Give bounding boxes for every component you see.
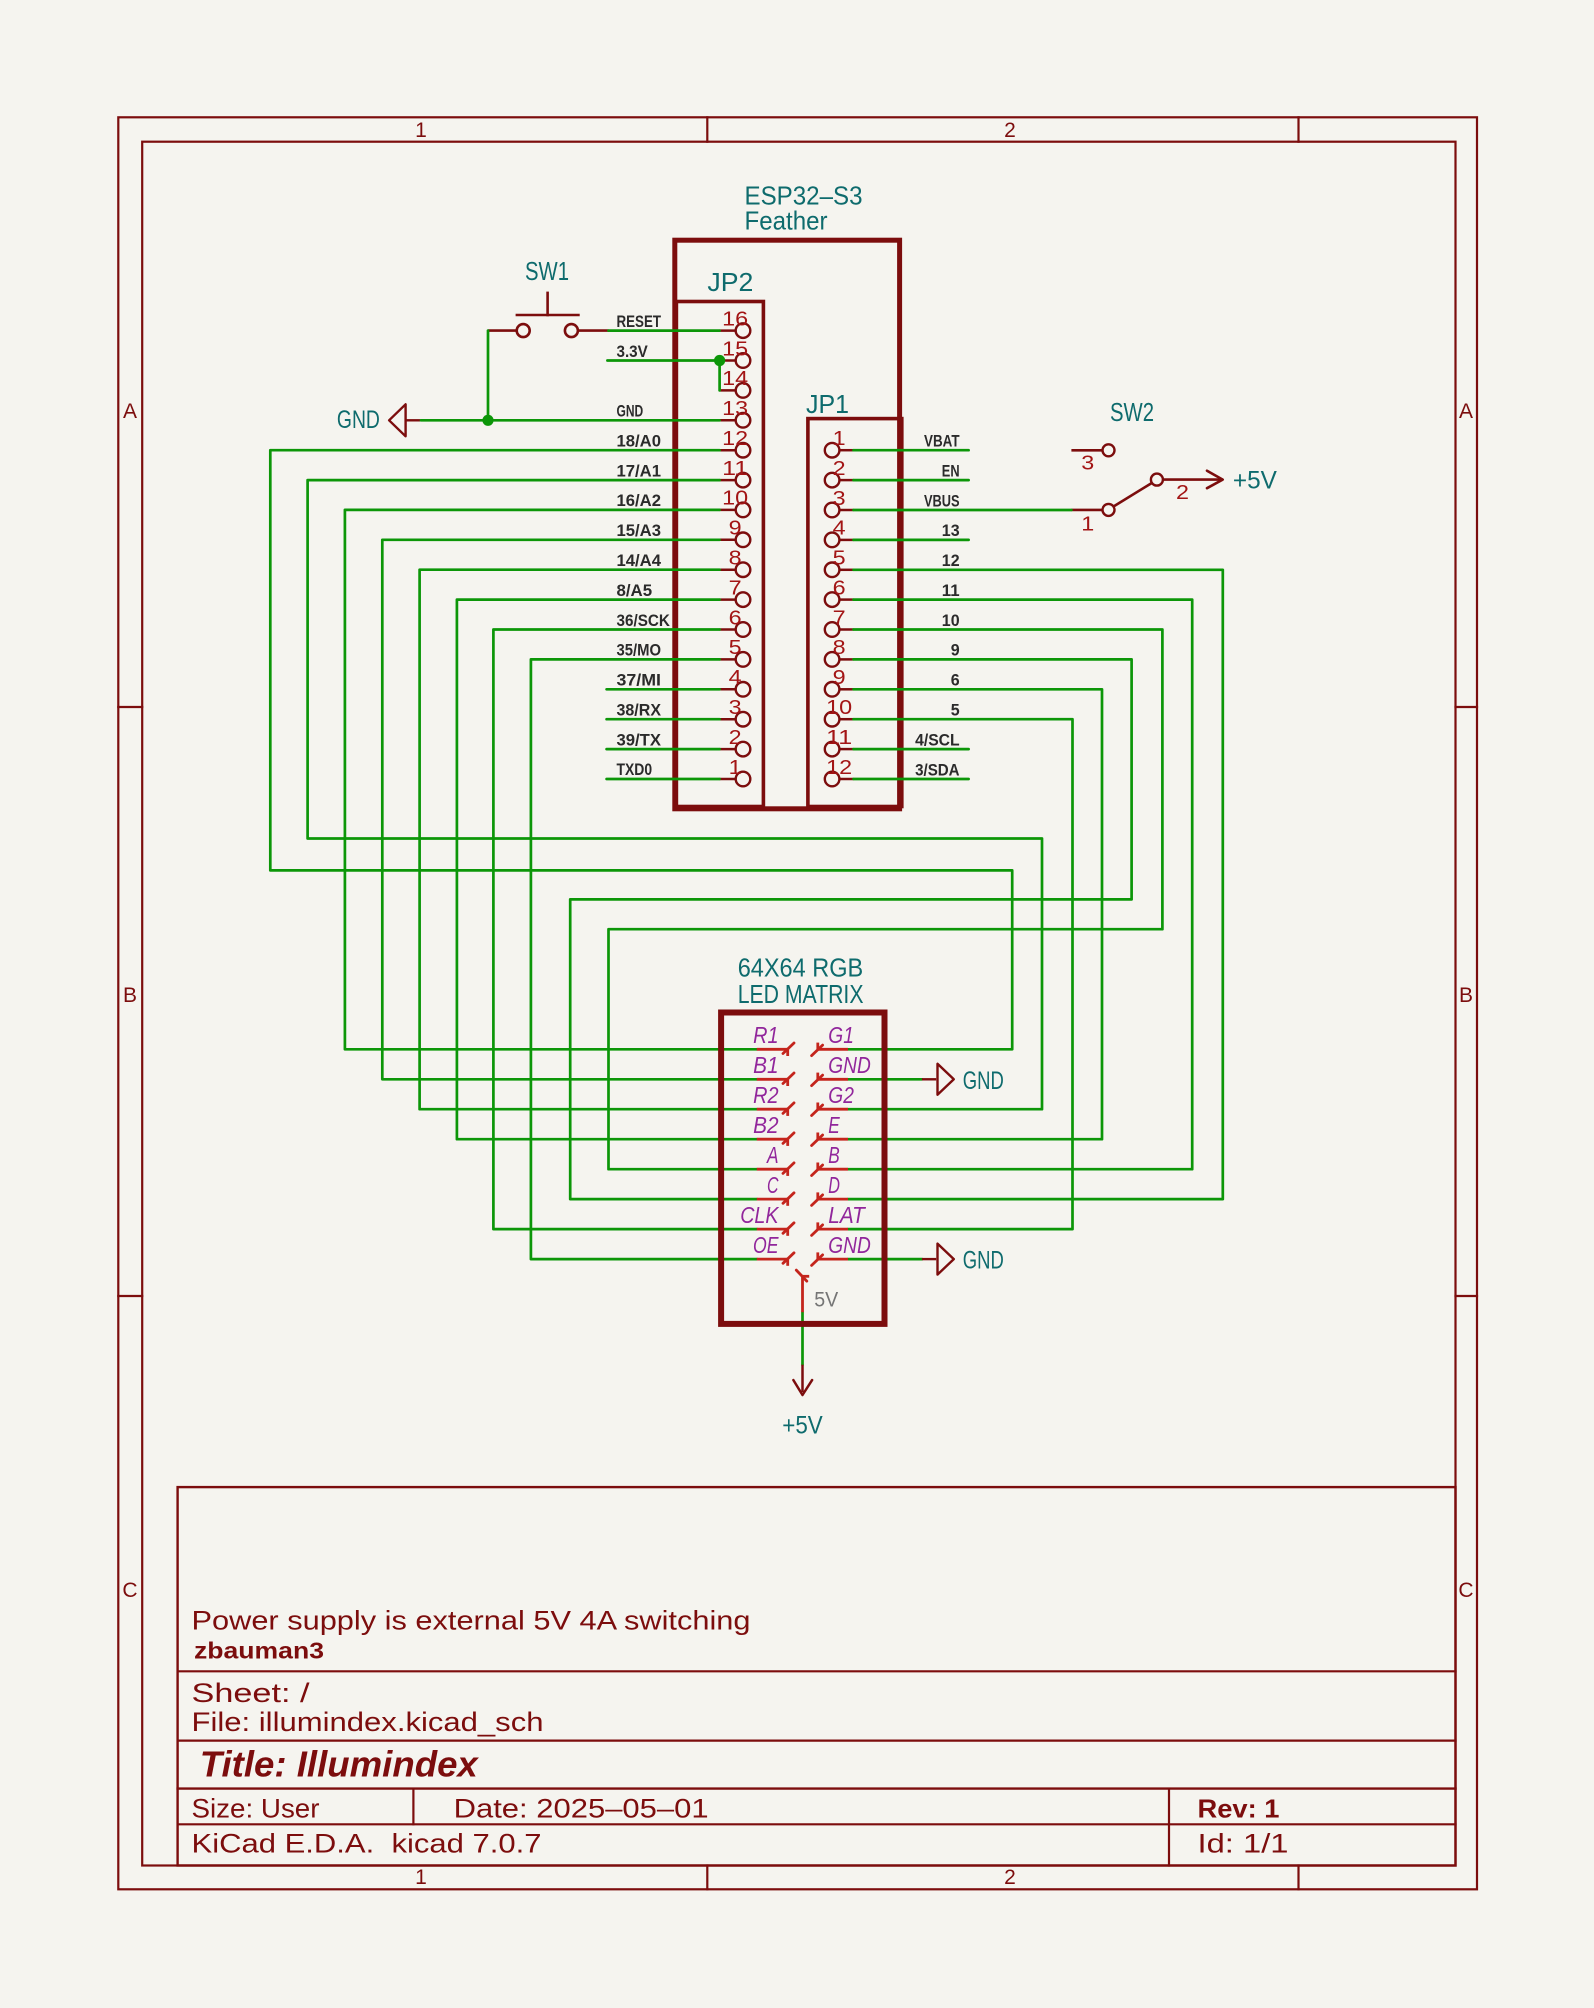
JP1 pin 4 — [839, 539, 853, 542]
JP2 pin 6 — [720, 628, 736, 631]
svg-text:3.3V: 3.3V — [617, 343, 648, 361]
wire matrix GND upper — [848, 1078, 922, 1081]
title block — [178, 1487, 1456, 1865]
svg-text:11: 11 — [722, 457, 748, 480]
svg-text:G1: G1 — [828, 1022, 854, 1048]
svg-text:LED MATRIX: LED MATRIX — [738, 979, 864, 1009]
svg-text:1: 1 — [415, 1866, 427, 1889]
wire RESET — [609, 329, 720, 332]
svg-text:Rev: 1: Rev: 1 — [1198, 1794, 1280, 1824]
svg-text:R1: R1 — [753, 1022, 778, 1048]
svg-text:Date: 2025–05–01: Date: 2025–05–01 — [454, 1794, 709, 1824]
svg-text:A: A — [1459, 400, 1473, 423]
svg-text:15/A3: 15/A3 — [617, 522, 662, 540]
svg-text:2: 2 — [729, 726, 742, 749]
svg-text:12: 12 — [826, 756, 852, 779]
wire net VBUS to SW2 — [854, 509, 1072, 512]
svg-text:VBAT: VBAT — [924, 433, 960, 451]
svg-text:B: B — [123, 984, 137, 1007]
svg-text:2: 2 — [1176, 481, 1189, 504]
svg-text:5: 5 — [951, 702, 960, 720]
matrix left pin C — [757, 1198, 788, 1201]
svg-text:12: 12 — [722, 427, 748, 450]
svg-text:Id: 1/1: Id: 1/1 — [1198, 1829, 1289, 1859]
matrix left pin B2 — [757, 1138, 788, 1141]
svg-text:Title: Illumindex: Title: Illumindex — [200, 1743, 480, 1784]
svg-text:10: 10 — [722, 487, 748, 510]
JP1 pin 11 — [839, 748, 853, 751]
svg-text:1: 1 — [729, 756, 742, 779]
JP2 pin 10 — [720, 509, 736, 512]
svg-text:KiCad E.D.A. kicad 7.0.7: KiCad E.D.A. kicad 7.0.7 — [192, 1829, 542, 1859]
wire stub 37/MI — [607, 688, 720, 691]
JP1 pin 12 — [839, 778, 853, 781]
svg-text:GND: GND — [963, 1067, 1004, 1095]
svg-text:4: 4 — [729, 666, 742, 689]
JP2 pin 7 — [720, 598, 736, 601]
svg-text:4/SCL: 4/SCL — [915, 731, 960, 749]
svg-text:LAT: LAT — [828, 1202, 866, 1228]
svg-text:E: E — [828, 1112, 840, 1138]
svg-text:VBUS: VBUS — [924, 492, 960, 510]
svg-text:CLK: CLK — [740, 1202, 779, 1228]
svg-text:11: 11 — [942, 582, 960, 600]
svg-text:5V: 5V — [814, 1288, 838, 1311]
component J1: 64X64 RGB LED MATRIX box — [721, 1013, 884, 1324]
svg-text:SW2: SW2 — [1110, 397, 1154, 427]
wire net 11 to B — [848, 600, 1192, 1170]
connector JP2 box — [676, 302, 763, 807]
svg-text:D: D — [828, 1172, 840, 1198]
svg-text:15: 15 — [722, 337, 748, 360]
svg-text:3: 3 — [833, 487, 846, 510]
wire net 16/A2 to R1 — [345, 510, 757, 1049]
SW2 pin 2 — [1151, 474, 1163, 486]
JP1 pin 5 — [839, 569, 853, 572]
matrix right pin GND — [818, 1078, 848, 1081]
JP2 pin 2 — [720, 748, 736, 751]
JP1 pin 2 — [839, 479, 853, 482]
svg-text:2: 2 — [1004, 119, 1016, 142]
JP2 pin 1 — [720, 778, 736, 781]
wire 3.3V to pin 14 — [718, 361, 721, 391]
matrix left pin A — [757, 1168, 788, 1171]
wire net 9 to C — [570, 659, 1131, 1199]
svg-text:+5V: +5V — [782, 1411, 823, 1439]
svg-text:B2: B2 — [753, 1112, 778, 1138]
svg-text:3: 3 — [1081, 451, 1094, 474]
svg-text:64X64 RGB: 64X64 RGB — [738, 953, 864, 983]
svg-text:OE: OE — [753, 1232, 779, 1258]
svg-text:7: 7 — [833, 606, 846, 629]
matrix right pin G1 — [818, 1048, 848, 1051]
svg-text:Sheet: /: Sheet: / — [192, 1678, 311, 1708]
svg-text:TXD0: TXD0 — [617, 761, 653, 779]
svg-text:5: 5 — [729, 636, 742, 659]
svg-text:18/A0: 18/A0 — [617, 433, 662, 451]
JP2 pin 3 — [720, 718, 736, 721]
svg-text:12: 12 — [942, 552, 960, 570]
JP1 pin 10 — [839, 718, 853, 721]
svg-text:EN: EN — [942, 462, 960, 480]
svg-text:11: 11 — [826, 726, 852, 749]
JP2 pin 11 — [720, 479, 736, 482]
JP2 pin 14 — [720, 389, 736, 392]
matrix right pin E — [818, 1138, 848, 1141]
JP2 pin 12 — [720, 449, 736, 452]
svg-text:C: C — [1458, 1579, 1473, 1602]
JP2 pin 5 — [720, 658, 736, 661]
svg-text:16: 16 — [722, 307, 748, 330]
svg-text:10: 10 — [826, 696, 852, 719]
svg-text:3: 3 — [729, 696, 742, 719]
matrix right pin GND — [818, 1258, 848, 1261]
JP2 pin 9 — [720, 539, 736, 542]
matrix left pin R2 — [757, 1108, 788, 1111]
svg-text:37/MI: 37/MI — [617, 672, 662, 690]
svg-text:35/MO: 35/MO — [617, 642, 662, 660]
svg-text:B: B — [828, 1142, 840, 1168]
JP1 pin 8 — [839, 658, 853, 661]
wire stub 3/SDA — [854, 778, 969, 781]
svg-text:10: 10 — [942, 612, 960, 630]
matrix right pin B — [818, 1168, 848, 1171]
power symbol +5V (bottom) — [801, 1365, 804, 1392]
svg-text:GND: GND — [337, 406, 380, 434]
svg-text:GND: GND — [963, 1247, 1004, 1275]
JP1 pin 7 — [839, 628, 853, 631]
svg-text:8: 8 — [833, 636, 846, 659]
svg-text:GND: GND — [828, 1052, 871, 1078]
svg-text:39/TX: 39/TX — [617, 731, 662, 749]
svg-text:G2: G2 — [828, 1082, 854, 1108]
wire net 35/MO to OE — [531, 659, 757, 1259]
wire net 18/A0 to G1 — [270, 450, 1012, 1049]
svg-text:8/A5: 8/A5 — [617, 582, 653, 600]
svg-text:File: illumindex.kicad_sch: File: illumindex.kicad_sch — [192, 1707, 544, 1737]
wire net 15/A3 to B1 — [382, 540, 757, 1080]
svg-text:B1: B1 — [753, 1052, 778, 1078]
wire stub 39/TX — [607, 748, 720, 751]
ground flag GND (left) — [389, 404, 406, 436]
svg-text:Size: User: Size: User — [192, 1794, 320, 1824]
wire GND — [421, 419, 720, 422]
junction at 3.3V pin 15 — [714, 355, 725, 366]
svg-text:1: 1 — [415, 119, 427, 142]
svg-text:13: 13 — [942, 522, 960, 540]
matrix left pin R1 — [757, 1048, 788, 1051]
svg-text:+5V: +5V — [1233, 467, 1277, 495]
JP2 pin 16 — [720, 329, 736, 332]
svg-text:GND: GND — [617, 403, 644, 421]
matrix right pin G2 — [818, 1108, 848, 1111]
wire net 12 to D — [848, 570, 1223, 1199]
wire stub 13 — [854, 539, 969, 542]
svg-text:4: 4 — [833, 517, 846, 540]
wire net 5 to LAT — [848, 719, 1073, 1229]
wire matrix GND lower — [848, 1258, 922, 1261]
svg-text:36/SCK: 36/SCK — [617, 612, 670, 630]
wire SW1 to GND net — [487, 331, 490, 421]
svg-text:6: 6 — [729, 606, 742, 629]
ground flag GND (matrix) — [922, 1078, 936, 1080]
svg-text:13: 13 — [722, 397, 748, 420]
matrix left pin CLK — [757, 1228, 788, 1231]
svg-text:Power supply is external 5V 4A: Power supply is external 5V 4A switching — [192, 1606, 751, 1636]
svg-text:RESET: RESET — [617, 313, 662, 331]
matrix right pin D — [818, 1198, 848, 1201]
SW2 blade — [1114, 483, 1152, 507]
JP2 pin 15 — [720, 359, 736, 362]
wire 3.3V — [607, 359, 719, 362]
svg-text:2: 2 — [833, 457, 846, 480]
svg-text:9: 9 — [951, 642, 960, 660]
svg-text:2: 2 — [1004, 1866, 1016, 1889]
wire net 17/A1 to G2 — [308, 480, 1042, 1109]
svg-text:3/SDA: 3/SDA — [915, 761, 960, 779]
JP1 pin 1 — [839, 449, 853, 452]
power flag +5V (SW2) — [1207, 471, 1223, 489]
svg-text:6: 6 — [833, 576, 846, 599]
JP1 pin 3 — [839, 509, 853, 512]
junction at GND branch — [482, 415, 493, 426]
SW2 pin 3 — [1071, 449, 1102, 452]
JP1 pin 9 — [839, 688, 853, 691]
matrix 5V pin — [801, 1276, 804, 1312]
wire net 8/A5 to B2 — [457, 600, 757, 1140]
svg-text:14/A4: 14/A4 — [617, 552, 662, 570]
svg-text:Feather: Feather — [745, 206, 828, 236]
wire stub EN — [854, 479, 969, 482]
svg-text:16/A2: 16/A2 — [617, 492, 662, 510]
JP2 pin 8 — [720, 568, 736, 571]
wire net 14/A4 to R2 — [420, 570, 757, 1109]
JP2 pin 13 — [720, 419, 736, 422]
svg-text:JP1: JP1 — [806, 389, 849, 419]
wire stub 4/SCL — [854, 748, 969, 751]
matrix left pin B1 — [757, 1078, 788, 1081]
component U1: ESP32-S3 Feather outline — [675, 240, 900, 809]
svg-text:9: 9 — [729, 517, 742, 540]
svg-text:38/RX: 38/RX — [617, 702, 662, 720]
wire matrix 5V — [801, 1312, 804, 1365]
ground flag GND (matrix) — [922, 1258, 936, 1260]
JP2 pin 4 — [720, 688, 736, 691]
svg-text:5: 5 — [833, 547, 846, 570]
wire stub VBAT — [854, 449, 969, 452]
svg-text:A: A — [766, 1142, 779, 1168]
matrix left pin OE — [757, 1258, 788, 1261]
svg-text:1: 1 — [1081, 513, 1094, 536]
matrix right pin LAT — [818, 1228, 848, 1231]
JP1 pin 6 — [839, 598, 853, 601]
svg-text:B: B — [1459, 984, 1473, 1007]
svg-text:14: 14 — [722, 367, 748, 390]
wire net 6 to E — [848, 689, 1102, 1139]
svg-text:C: C — [767, 1172, 779, 1198]
svg-text:A: A — [123, 400, 137, 423]
svg-text:SW1: SW1 — [525, 256, 569, 286]
svg-text:zbauman3: zbauman3 — [194, 1638, 324, 1664]
svg-text:6: 6 — [951, 672, 960, 690]
svg-text:C: C — [122, 1579, 137, 1602]
svg-text:8: 8 — [729, 547, 742, 570]
svg-text:7: 7 — [729, 576, 742, 599]
svg-text:R2: R2 — [753, 1082, 778, 1108]
svg-text:17/A1: 17/A1 — [617, 462, 662, 480]
svg-text:JP2: JP2 — [707, 267, 753, 297]
wire stub 38/RX — [607, 718, 720, 721]
svg-text:GND: GND — [828, 1232, 871, 1258]
svg-text:9: 9 — [833, 666, 846, 689]
wire stub TXD0 — [607, 778, 720, 781]
wire net 10 to A — [609, 630, 1163, 1170]
wire net 36/SCK to CLK — [493, 630, 757, 1230]
svg-text:1: 1 — [833, 427, 846, 450]
SW2 pin 1 — [1071, 509, 1102, 512]
connector JP1 box — [808, 419, 902, 807]
sheet border frame — [118, 117, 1477, 1889]
